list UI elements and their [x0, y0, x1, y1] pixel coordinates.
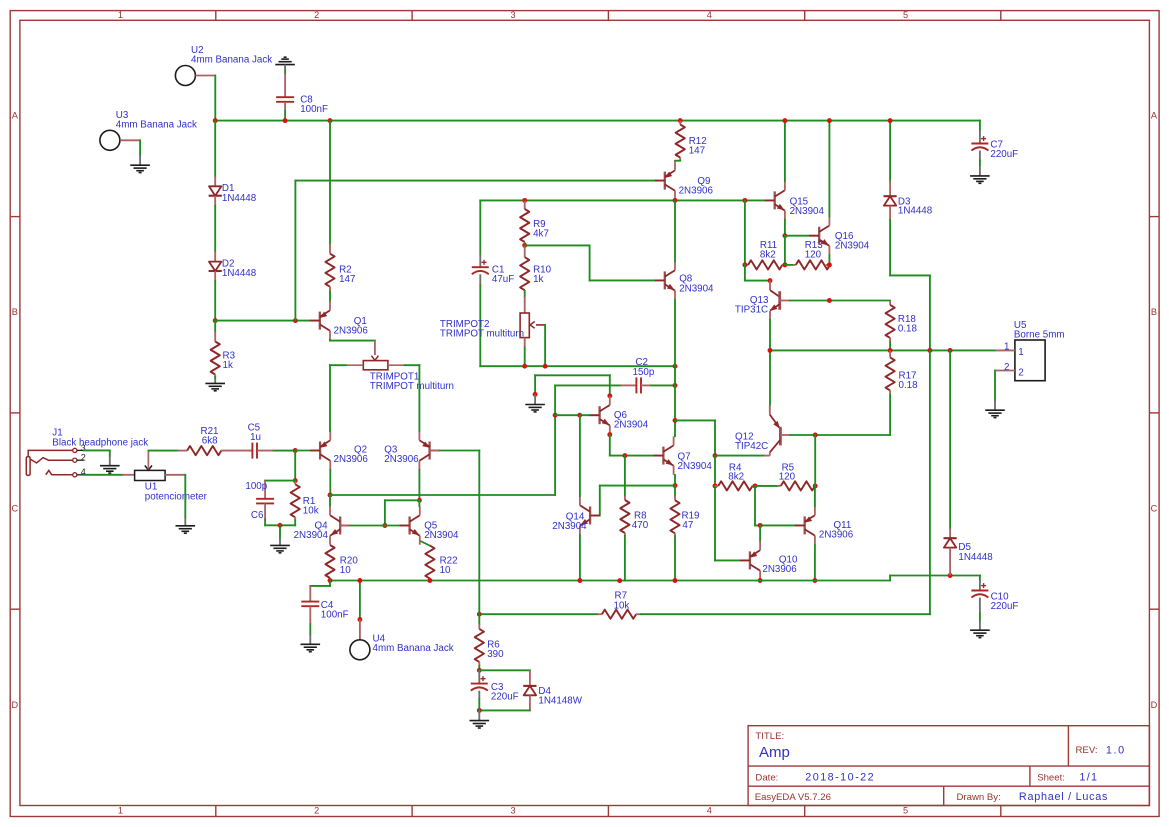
svg-text:Sheet:: Sheet: — [1037, 773, 1065, 784]
svg-text:C6: C6 — [251, 510, 264, 521]
transistor Q15 2N3904 — [774, 191, 776, 209]
svg-text:220uF: 220uF — [990, 149, 1018, 160]
node D2/R3/base line — [213, 318, 218, 323]
U1 wiper — [147, 451, 149, 465]
transistor Q13 TIP31C — [769, 281, 771, 291]
node D5 on bus — [948, 573, 953, 578]
capacitor C7 220uF — [979, 121, 981, 131]
svg-text:2N3904: 2N3904 — [790, 206, 825, 217]
resistor R6 390 — [478, 614, 480, 624]
node C2 right — [673, 383, 678, 388]
transistor Q12 TIP42C — [769, 350, 771, 405]
node bus/C8 — [283, 118, 288, 123]
potentiometer U1 — [135, 470, 166, 480]
wire J1 pin3 to ground — [84, 449, 110, 451]
wire main positive bus y=120.6 — [215, 120, 980, 122]
transistor Q3 2N3906 (mirrored) — [428, 442, 430, 460]
resistor R2 147 — [325, 254, 334, 287]
svg-text:1N4148W: 1N4148W — [538, 696, 582, 707]
svg-text:220uF: 220uF — [991, 601, 1019, 612]
node TRIMPOT2 pins on rail — [522, 364, 527, 369]
node C5/Q2 base/R1 — [293, 448, 298, 453]
wire Q6 emitter to Q7 base — [609, 435, 611, 456]
wire D4 bottom to C3 bottom — [479, 709, 530, 711]
node Q10 collector on bus — [758, 578, 763, 583]
node R8 on bus (offset) — [617, 578, 622, 583]
node Q6 collector — [607, 393, 612, 398]
svg-text:10k: 10k — [303, 506, 319, 517]
svg-text:A: A — [1151, 111, 1158, 121]
node Q12 base — [713, 453, 718, 458]
svg-text:0.18: 0.18 — [898, 324, 918, 335]
svg-text:4k7: 4k7 — [533, 229, 549, 240]
ground under U1 — [176, 525, 196, 527]
wire Q3 base column x=479.3 — [478, 451, 480, 615]
wire R7 feedback row y=614.2 — [479, 613, 597, 615]
wire D1 to D2 — [214, 196, 216, 206]
node x=675 y=420.4 — [673, 418, 678, 423]
wire Q3 base to column — [430, 450, 440, 452]
transistor Q1 2N3906 — [319, 312, 321, 330]
wire Q12 collector line to R17 — [789, 434, 791, 436]
wire Q2 collector down — [329, 470, 331, 495]
svg-text:147: 147 — [689, 146, 705, 157]
banana jack U2 — [175, 66, 195, 86]
wire Q1 collector to TRIMPOT1 wiper — [329, 339, 331, 342]
diode D4 1N4148W — [524, 686, 536, 695]
svg-text:Black headphone jack: Black headphone jack — [52, 437, 148, 448]
svg-text:6k8: 6k8 — [202, 436, 218, 447]
wire Q8 emitter down — [674, 300, 676, 366]
svg-text:1N4448: 1N4448 — [222, 193, 257, 204]
svg-text:TIP31C: TIP31C — [735, 305, 768, 316]
transistor Q5 2N3904 — [408, 517, 410, 535]
wire U3 to ground — [120, 139, 140, 141]
resistor R17 0.18 — [889, 350, 891, 357]
svg-text:5: 5 — [903, 806, 908, 816]
node R18/R17 on output bus — [888, 348, 893, 353]
wire R2 to Q1 emitter — [329, 287, 331, 292]
wire x=929.9 R7 riser — [929, 350, 931, 614]
svg-text:147: 147 — [339, 274, 355, 285]
wire collector bus y=495.0 — [330, 494, 555, 496]
svg-text:2N3904: 2N3904 — [679, 283, 714, 294]
svg-text:10: 10 — [340, 565, 351, 576]
node Q5 collector tap — [417, 498, 422, 503]
resistor R9 4k7 — [524, 200, 526, 209]
resistor R11 8k2 — [745, 264, 748, 266]
svg-text:TRIMPOT multiturn: TRIMPOT multiturn — [370, 381, 454, 392]
transistor Q7 2N3904 — [662, 447, 664, 465]
svg-text:1: 1 — [1018, 347, 1023, 358]
wire C1 minus to rail y=366.2 — [479, 285, 481, 366]
svg-text:D: D — [1151, 700, 1158, 710]
svg-text:150p: 150p — [633, 367, 655, 378]
node rail/Q8 emitter line — [673, 364, 678, 369]
wire J1 pin4 to U1 — [84, 474, 123, 476]
wire Q14 collector up to Q6 base node — [579, 415, 581, 496]
svg-text:2N3904: 2N3904 — [552, 521, 587, 532]
svg-text:1.0: 1.0 — [1106, 745, 1126, 757]
wire Q14 base line y=485.6 — [600, 485, 675, 487]
svg-text:1N4448: 1N4448 — [958, 552, 993, 563]
banana jack U3 — [100, 130, 120, 150]
svg-text:Drawn By:: Drawn By: — [957, 792, 1001, 803]
svg-text:3: 3 — [510, 10, 515, 20]
resistor R7 10k — [597, 613, 602, 615]
ground near U3 — [130, 164, 150, 166]
trimpot TRIMPOT2 multiturn — [520, 313, 529, 338]
svg-text:120: 120 — [779, 472, 796, 483]
capacitor C2 150p — [555, 384, 621, 386]
node R11 left — [742, 262, 747, 267]
node R19 on bus — [673, 578, 678, 583]
wire y=180.6 to Q9 base — [295, 180, 655, 182]
node Q6 base / x=555.1 — [553, 413, 558, 418]
svg-text:8k2: 8k2 — [728, 472, 744, 483]
svg-text:2N3904: 2N3904 — [614, 420, 649, 431]
node R11/R13 — [782, 262, 787, 267]
wire C2 left branch x=555.1 — [554, 385, 556, 495]
svg-text:1N4448: 1N4448 — [222, 268, 257, 279]
wire Q14 emitter to bottom bus — [579, 535, 581, 581]
node Q7 emitter / Q14 base / R19 — [673, 483, 678, 488]
capacitor C3 220uF — [478, 670, 480, 683]
wire Q4 base to Q5 base — [340, 525, 350, 527]
transistor Q11 2N3906 — [804, 516, 806, 534]
ground mid (Q6 collector) — [525, 404, 545, 406]
wire TRIMPOT2 wiper down — [544, 325, 546, 366]
svg-text:2N3906: 2N3906 — [819, 529, 854, 540]
svg-text:4mm Banana Jack: 4mm Banana Jack — [373, 643, 454, 654]
svg-text:2: 2 — [1004, 362, 1009, 373]
svg-text:1: 1 — [118, 806, 123, 816]
node R22 on bus — [427, 578, 432, 583]
diode D5 1N4448 — [949, 350, 951, 528]
J1 pin circles — [73, 448, 77, 452]
svg-text:2N3904: 2N3904 — [294, 530, 329, 541]
TRIMPOT1 left pin to Q2 emitter — [346, 364, 364, 366]
wire Q7 emitter down — [674, 475, 676, 486]
svg-text:10: 10 — [440, 565, 451, 576]
svg-text:B: B — [12, 307, 18, 317]
wire R5 node up — [814, 435, 816, 486]
node ground tap — [278, 523, 283, 528]
U5 pin 2 — [995, 370, 1015, 372]
resistor R5 120 — [755, 485, 777, 487]
svg-text:Raphael / Lucas: Raphael / Lucas — [1019, 791, 1108, 803]
svg-text:2: 2 — [314, 806, 319, 816]
node Q14 emitter on bus — [577, 578, 582, 583]
wire Q7 collector up — [674, 420, 676, 436]
svg-text:2N3906: 2N3906 — [334, 326, 369, 337]
wire to D4 top — [479, 669, 530, 671]
node Q13/Q12 emitter column — [768, 348, 773, 353]
svg-text:2N3904: 2N3904 — [424, 530, 459, 541]
node R5 right / Q11 emitter — [813, 483, 818, 488]
svg-text:1: 1 — [1004, 342, 1009, 353]
ground under C7 — [970, 175, 990, 177]
resistor R18 0.18 — [889, 301, 891, 305]
svg-text:C: C — [1151, 504, 1158, 514]
J1 pin stubs — [77, 449, 84, 451]
wire R1 column — [294, 451, 296, 481]
wire D3 to output bus (jog) — [889, 220, 891, 275]
transistor Q6 2N3904 — [598, 406, 600, 424]
wire R9/R10 node to Q8 base — [525, 244, 590, 246]
ground under C3 — [470, 720, 490, 722]
wire to ground — [279, 525, 281, 538]
svg-text:470: 470 — [632, 520, 649, 531]
wire vertical x=295.4 — [294, 181, 296, 321]
wire Q3 collector down — [418, 470, 420, 500]
wire bus y=200.4 — [480, 199, 765, 201]
wire ground to C8 — [284, 71, 286, 74]
svg-text:4: 4 — [707, 806, 712, 816]
banana jack U4 — [359, 581, 361, 620]
node R4/R5 — [753, 483, 758, 488]
svg-text:potenciometer: potenciometer — [145, 491, 208, 502]
node bus/R12 — [678, 118, 683, 123]
node Q9 collector on bus — [673, 198, 678, 203]
wire TRIMPOT2 bottom pin — [524, 338, 526, 348]
node bus/R2 — [328, 118, 333, 123]
wire Q11 collector to bus — [814, 545, 816, 581]
wire Q15 emitter to Q16 base — [784, 220, 786, 236]
svg-text:4mm Banana Jack: 4mm Banana Jack — [116, 120, 197, 131]
svg-text:TITLE:: TITLE: — [755, 731, 784, 742]
svg-text:390: 390 — [487, 649, 504, 660]
svg-text:2N3906: 2N3906 — [334, 454, 369, 465]
svg-text:47uF: 47uF — [492, 274, 514, 285]
node Q13 base — [768, 278, 773, 283]
svg-text:Date:: Date: — [755, 773, 778, 784]
svg-text:B: B — [1151, 307, 1157, 317]
node bus/R11 branch — [742, 198, 747, 203]
svg-text:1k: 1k — [223, 360, 233, 371]
svg-text:C: C — [11, 504, 18, 514]
wire x=675 between rails — [674, 366, 676, 385]
trimpot TRIMPOT1 multiturn — [363, 361, 388, 370]
connector U5 Borne 5mm — [1015, 340, 1045, 381]
transistor Q10 2N3906 — [749, 551, 751, 569]
ground at J1 — [100, 465, 120, 467]
svg-text:1: 1 — [118, 10, 123, 20]
wire wiper to R21 — [148, 450, 177, 452]
wire R1 bottom row — [265, 524, 295, 526]
wire Q13 collector line y=300.5 — [790, 300, 890, 302]
node R9/R10 — [522, 243, 527, 248]
wire ground stub x=535.1 — [534, 375, 536, 394]
wire Q15 emitter node down to R11/R13 — [784, 236, 786, 265]
ground under C10 — [970, 629, 990, 631]
wire U5 pin2 to ground — [994, 371, 996, 401]
wire Q11 emitter up to R5 — [814, 486, 816, 506]
svg-text:TIP42C: TIP42C — [735, 441, 768, 452]
svg-text:EasyEDA V5.7.26: EasyEDA V5.7.26 — [755, 792, 831, 803]
wire Q6 base line — [555, 414, 589, 416]
node Q12 collector / R5 column — [813, 433, 818, 438]
svg-text:TRIMPOT multiturn: TRIMPOT multiturn — [440, 329, 524, 340]
wire x=744.9 down from bus — [744, 200, 746, 265]
ground under R1/C6 — [270, 544, 290, 546]
resistor R20 10 — [325, 545, 334, 578]
svg-text:2018-10-22: 2018-10-22 — [805, 772, 875, 784]
node Q2 collector bus — [328, 493, 333, 498]
resistor R1 10k — [294, 481, 296, 485]
svg-text:1/1: 1/1 — [1079, 772, 1098, 784]
node bus/U2/D1 — [213, 118, 218, 123]
wire C8 to bus — [284, 102, 286, 111]
TRIMPOT1 right pin to Q3 emitter — [388, 364, 405, 366]
svg-text:220uF: 220uF — [491, 692, 519, 703]
wire Q16 collector to bus — [828, 121, 830, 217]
resistor R10 1k — [524, 245, 526, 257]
wire to Q2 base — [295, 450, 310, 452]
svg-text:2N3906: 2N3906 — [384, 454, 419, 465]
wire Q10 emitter — [759, 525, 761, 541]
ground under R3 — [205, 382, 225, 384]
wire x=715 down to R4 — [714, 456, 716, 486]
wire bus to R2 — [329, 121, 331, 245]
capacitor C5 1u — [221, 450, 252, 452]
svg-text:100p: 100p — [245, 481, 267, 492]
node R7/R6/Q3-base column — [477, 612, 482, 617]
node R8 top on base line — [622, 453, 627, 458]
wire Q5 collector up — [418, 500, 420, 506]
ground above C8 (flipped) — [275, 64, 295, 66]
node bus/Q16 — [827, 118, 832, 123]
wire x=715 down to Q10 base — [714, 486, 716, 561]
transistor Q16 2N3904 — [818, 227, 820, 245]
wire to Q4 collector — [329, 495, 331, 506]
wire Q12 base line — [715, 455, 764, 457]
wire output bus y=350.4 — [770, 349, 995, 351]
svg-text:D: D — [11, 700, 18, 710]
svg-text:A: A — [12, 111, 19, 121]
node R13/Q16 emitter — [827, 262, 832, 267]
wire R3 to ground — [214, 375, 216, 378]
capacitor C6 100p — [265, 480, 295, 482]
diode D1 1N4448 — [209, 186, 221, 195]
svg-text:100nF: 100nF — [321, 610, 349, 621]
svg-text:2N3904: 2N3904 — [678, 461, 713, 472]
U5 pin 1 — [995, 349, 1015, 351]
node Q13 collector/Q16 line — [827, 298, 832, 303]
wire bus to D1 — [214, 121, 216, 177]
wire R4/R5 node down to Q10/Q11 base row — [754, 486, 756, 526]
wire rail y=366.2 — [480, 365, 675, 367]
resistor R8 470 — [624, 456, 626, 496]
svg-text:2: 2 — [81, 453, 86, 463]
capacitor C4 100nF — [329, 581, 331, 586]
svg-text:4: 4 — [707, 10, 712, 20]
svg-text:5: 5 — [903, 10, 908, 20]
capacitor C10 220uF — [979, 576, 981, 581]
svg-text:100nF: 100nF — [300, 104, 328, 115]
wire node to Q12 base column — [675, 419, 715, 421]
wire bottom bus y=580.5 — [330, 580, 890, 582]
wire U1 right to ground — [165, 474, 185, 476]
transistor Q9 2N3906 — [664, 172, 666, 190]
node output bus x=950.1 — [948, 348, 953, 353]
node bus/R9 — [522, 198, 527, 203]
ground under U5 pin2 — [985, 409, 1005, 411]
diode D2 1N4448 — [209, 262, 221, 271]
transistor Q8 2N3904 — [664, 271, 666, 289]
svg-text:2: 2 — [1018, 367, 1023, 378]
svg-text:4mm Banana Jack: 4mm Banana Jack — [191, 55, 272, 66]
capacitor C1 47uF — [479, 200, 481, 254]
resistor R21 6k8 — [177, 450, 187, 452]
svg-text:47: 47 — [682, 520, 693, 531]
svg-text:2N3906: 2N3906 — [762, 564, 797, 575]
svg-text:1u: 1u — [250, 432, 261, 443]
resistor R3 1k — [214, 321, 216, 332]
wire Q8 collector to bus — [674, 200, 676, 261]
resistor R12 147 — [679, 121, 681, 125]
node Q11 collector on bus — [812, 578, 817, 583]
node R6/C3/D4 — [477, 668, 482, 673]
node R20/bus/C4 — [328, 578, 333, 583]
node Q10 emitter tap — [758, 523, 763, 528]
wire Q6 collector to ground rail y=375.3 — [535, 374, 610, 376]
wire U2 to bus — [195, 75, 215, 77]
svg-text:0.18: 0.18 — [899, 380, 919, 391]
node Q6 emitter — [607, 432, 612, 437]
svg-text:Amp: Amp — [759, 744, 790, 761]
transistor Q4 2N3904 (mirrored) — [339, 517, 341, 535]
title block — [748, 726, 1149, 806]
wire R11 node to Q13 base — [744, 265, 746, 281]
wire D2 to node — [214, 271, 216, 281]
resistor R13 120 — [785, 264, 793, 266]
resistor R19 47 — [674, 486, 676, 496]
capacitor C8 100nF — [276, 96, 294, 98]
node bus/Q15 — [782, 118, 787, 123]
node base tie — [382, 523, 387, 528]
resistor R22 10 — [420, 541, 430, 546]
svg-text:2: 2 — [314, 10, 319, 20]
svg-text:REV:: REV: — [1076, 745, 1098, 756]
node output bus x=929.9 — [927, 348, 932, 353]
wire Q15 collector to bus — [784, 121, 786, 181]
node base line x=295.4 — [293, 318, 298, 323]
svg-text:8k2: 8k2 — [760, 250, 776, 261]
node R4 left — [713, 483, 718, 488]
svg-text:1k: 1k — [533, 274, 543, 285]
wire Q16 emitter to R13 — [828, 255, 830, 265]
node Q6 base / x=579.7 — [577, 413, 582, 418]
ground under C4 — [301, 643, 321, 645]
svg-text:10k: 10k — [614, 600, 630, 611]
svg-text:1N4448: 1N4448 — [898, 206, 933, 217]
svg-text:3: 3 — [510, 806, 515, 816]
transistor Q14 2N3904 (mirrored) — [589, 507, 591, 525]
resistor R4 8k2 — [715, 485, 718, 487]
diode D3 1N4448 — [889, 121, 891, 181]
wire Q13 emitter down — [769, 320, 771, 351]
wire Q4/Q5 base tie — [384, 500, 386, 525]
svg-text:Borne 5mm: Borne 5mm — [1014, 330, 1065, 341]
svg-text:120: 120 — [805, 250, 822, 261]
transistor Q2 2N3906 — [319, 442, 321, 460]
node R1/C6 top — [293, 478, 298, 483]
wire R12 to Q9 emitter — [679, 158, 681, 161]
svg-text:2N3904: 2N3904 — [835, 240, 870, 251]
node C3 bottom — [477, 708, 482, 713]
wire base line y=320.6 — [215, 320, 310, 322]
